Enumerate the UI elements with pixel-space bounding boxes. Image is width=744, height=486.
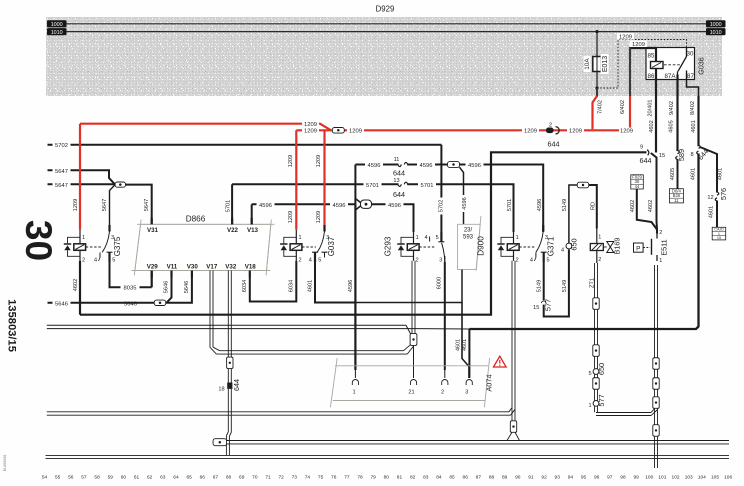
- wire label 4602 at G375: [73, 279, 79, 291]
- G293 pin 3: [439, 256, 445, 263]
- svg-text:1209: 1209: [524, 129, 537, 135]
- svg-text:15: 15: [533, 305, 539, 311]
- svg-text:84: 84: [436, 475, 442, 481]
- svg-text:E511: E511: [660, 239, 669, 255]
- svg-text:A074: A074: [485, 374, 494, 391]
- A074 pin 1: [352, 380, 358, 396]
- wire label ZT1: [590, 278, 596, 288]
- svg-text:59: 59: [108, 475, 114, 481]
- G293 pin 2: [414, 250, 419, 263]
- cable from E511 pin1: [655, 265, 658, 358]
- svg-text:66: 66: [200, 475, 206, 481]
- svg-text:61: 61: [134, 475, 140, 481]
- sensor B169 pin 1: [597, 229, 602, 244]
- G037 diode: [280, 237, 296, 256]
- svg-text:70: 70: [252, 475, 258, 481]
- svg-text:577: 577: [597, 394, 606, 406]
- svg-text:67: 67: [213, 475, 219, 481]
- svg-text:65: 65: [186, 475, 192, 481]
- svg-text:80: 80: [384, 475, 390, 481]
- wire 5701 row: [232, 183, 398, 185]
- G375 coil: [74, 244, 86, 251]
- svg-text:87: 87: [476, 475, 482, 481]
- relay pin 87: [687, 71, 695, 80]
- svg-text:75: 75: [318, 475, 324, 481]
- svg-text:57: 57: [81, 475, 87, 481]
- cable E511 column to bottom: [655, 436, 658, 468]
- svg-text:1209: 1209: [349, 129, 362, 135]
- wire 5702 bus: [48, 144, 442, 146]
- svg-text:4601: 4601: [462, 339, 468, 351]
- svg-text:5149: 5149: [562, 280, 568, 292]
- svg-text:21: 21: [408, 390, 414, 396]
- wire 5701 V22 riser: [231, 184, 233, 224]
- svg-text:1209: 1209: [632, 42, 645, 48]
- svg-text:V22: V22: [227, 227, 239, 234]
- wire label 5647 at V31 riser: [144, 199, 150, 211]
- wire label 1000 right: [706, 20, 726, 28]
- G371 dashed coil link: [519, 246, 534, 248]
- svg-text:1: 1: [298, 235, 301, 241]
- G293 switch pin 5: [436, 232, 445, 242]
- connector break 11/644 on 4596: [393, 157, 408, 177]
- svg-text:2: 2: [416, 257, 419, 263]
- power distribution rail D929 (grey band): [46, 17, 722, 96]
- wire 6034 V18 riser: [250, 261, 296, 302]
- wire 1209 red bus lower: [296, 129, 630, 131]
- wire label 8035: [121, 284, 140, 291]
- wire label 4605 lower: [670, 168, 676, 180]
- cable rail R across page: [47, 408, 515, 415]
- svg-text:1209: 1209: [316, 155, 322, 167]
- svg-text:5646: 5646: [184, 281, 190, 293]
- wire label 5646 at V11: [164, 281, 170, 293]
- wire label RD: [590, 202, 596, 210]
- D866 pin V13: [247, 218, 259, 234]
- wire label 6034 at G037: [289, 280, 295, 292]
- label G371: [547, 236, 556, 256]
- wire label 1209 after 644: [567, 128, 584, 135]
- wire label 6034 at V18: [242, 280, 248, 292]
- connector A074 box: [330, 358, 489, 407]
- wire 4596 row1 right to G371: [460, 165, 544, 233]
- svg-text:1209: 1209: [620, 129, 633, 135]
- svg-text:D929: D929: [376, 5, 395, 14]
- node fuse tap on wire 1010: [595, 30, 598, 33]
- connector pin 1 on 577 left: [588, 389, 598, 409]
- svg-text:1: 1: [82, 235, 85, 241]
- wire 5701 row right: [407, 184, 513, 232]
- wire 8035 from G375 pin5: [110, 262, 152, 287]
- relay contact blade: [678, 57, 687, 72]
- G371 pin 4 contact: [530, 253, 536, 264]
- label E013: [601, 54, 610, 74]
- wire 1209 red riser to G037 pin1: [295, 130, 297, 230]
- G293 diode: [397, 237, 413, 256]
- wire label 4601 branch lower: [709, 206, 715, 218]
- connector on E511 column 2: [653, 378, 659, 390]
- G293 dashed coil link: [419, 246, 436, 248]
- B169 nozzle symbol: [603, 242, 614, 253]
- wire label 4596 after V13: [257, 202, 275, 209]
- cable ZT1 from B169 pin2: [595, 263, 598, 298]
- wire label 5647 lower: [53, 182, 71, 189]
- svg-text:1: 1: [516, 235, 519, 241]
- wire label 4596 row1 mid: [417, 162, 435, 169]
- svg-text:650: 650: [570, 238, 579, 250]
- svg-text:100: 100: [645, 475, 653, 481]
- svg-text:101: 101: [658, 475, 666, 481]
- ruler scale 54-106: [42, 475, 733, 481]
- svg-text:15: 15: [659, 153, 665, 159]
- wire label 6/402: [620, 100, 626, 114]
- svg-text:5646: 5646: [55, 301, 68, 307]
- wire label 4601 mid right: [690, 168, 696, 180]
- svg-text:74: 74: [305, 475, 311, 481]
- svg-text:5: 5: [318, 257, 321, 263]
- svg-text:62: 62: [147, 475, 153, 481]
- connector break 8/644: [690, 145, 710, 162]
- svg-text:63: 63: [160, 475, 166, 481]
- connector on ZT1 cable: [593, 298, 599, 310]
- D866 pin V22: [227, 218, 239, 234]
- G037 pin 4 contact: [309, 252, 318, 263]
- svg-text:5701: 5701: [507, 199, 513, 211]
- wire fuse feed: [596, 32, 598, 57]
- wire label 1209 at relay 85 feed: [630, 41, 647, 48]
- svg-text:4602: 4602: [649, 120, 655, 132]
- svg-text:G293: G293: [384, 236, 393, 256]
- svg-text:69: 69: [239, 475, 245, 481]
- svg-text:4596: 4596: [388, 203, 401, 209]
- wire 5646 branch to V11: [167, 278, 172, 303]
- cable B169 column bottom turn: [595, 406, 658, 415]
- svg-text:5646: 5646: [164, 281, 170, 293]
- svg-text:5647: 5647: [102, 199, 108, 211]
- wire label 9/402: [669, 101, 675, 115]
- svg-text:68: 68: [226, 475, 232, 481]
- control unit D866 box: [132, 220, 275, 276]
- fuse E013 10A: [593, 57, 601, 72]
- G037 switch blade: [317, 232, 324, 253]
- svg-text:1209: 1209: [304, 122, 317, 128]
- D866 pin V17: [206, 263, 218, 270]
- svg-text:5: 5: [546, 257, 549, 263]
- svg-text:76: 76: [331, 475, 337, 481]
- svg-text:577: 577: [544, 299, 553, 311]
- svg-text:1209: 1209: [569, 129, 582, 135]
- wire 4596 row3: [252, 203, 356, 205]
- wire 5646 to V30: [166, 278, 192, 303]
- svg-text:6034: 6034: [242, 280, 248, 292]
- svg-text:650: 650: [597, 363, 606, 375]
- wire label 7/402: [598, 100, 604, 114]
- svg-text:D866: D866: [186, 215, 206, 224]
- G375 switch blade: [102, 232, 109, 253]
- svg-text:1209: 1209: [73, 199, 79, 211]
- svg-text:64: 64: [173, 475, 179, 481]
- connector on E511 column 4: [653, 425, 659, 437]
- connector pin 4 on 650: [561, 243, 572, 253]
- svg-text:B169: B169: [613, 238, 622, 255]
- wire 5149 from G371 pin5: [543, 262, 545, 300]
- E511 contact: [652, 234, 658, 262]
- wire 4601 thin rail left: [47, 328, 418, 330]
- connector on 5646: [154, 300, 166, 305]
- wire 4601 branch to refbox: [716, 201, 718, 228]
- A074 pin 2: [441, 380, 448, 396]
- G037 pin 5 contact: [318, 252, 327, 263]
- svg-text:87: 87: [687, 73, 694, 80]
- svg-text:4596: 4596: [468, 163, 481, 169]
- wire label 1000 left: [47, 20, 67, 28]
- svg-text:4602: 4602: [648, 200, 654, 212]
- wire 6000 to A074 pin2: [444, 370, 446, 378]
- page number 30: [18, 220, 59, 261]
- connector break 13/644 on 5701: [393, 178, 408, 199]
- svg-text:12: 12: [707, 195, 713, 201]
- svg-text:8035: 8035: [124, 286, 137, 292]
- svg-text:10A: 10A: [584, 58, 591, 70]
- wire label 1209 at G375: [73, 199, 79, 211]
- node fuse output junction: [595, 86, 598, 89]
- relay pin 86: [648, 69, 656, 80]
- wire 6000 from G293 pin3: [444, 262, 446, 370]
- svg-text:V11: V11: [167, 263, 178, 270]
- svg-text:105: 105: [711, 475, 719, 481]
- label B169: [613, 238, 622, 255]
- pressure switch E511 pin 2: [659, 230, 662, 236]
- svg-text:V18: V18: [245, 263, 257, 270]
- svg-text:4596: 4596: [333, 203, 346, 209]
- svg-text:99: 99: [633, 475, 639, 481]
- wire label 1209 lower fork: [302, 128, 319, 135]
- G371 pin 5 contact: [541, 252, 550, 263]
- svg-text:71: 71: [265, 475, 271, 481]
- cable ZT1 down: [595, 309, 598, 344]
- wire 4601 relay column down to bus: [469, 154, 698, 330]
- svg-text:V29: V29: [147, 263, 159, 270]
- connector on V32 cable: [227, 357, 233, 369]
- svg-text:5701: 5701: [421, 183, 434, 189]
- wire label 4601 branch upper: [718, 168, 724, 180]
- wire 1209 red to G375 pin1: [79, 124, 81, 230]
- G037 pin 2: [296, 250, 301, 263]
- svg-text:RD: RD: [590, 202, 596, 210]
- svg-text:13: 13: [393, 178, 399, 184]
- wire 4601 bus B right: [418, 328, 697, 330]
- wire label 1209 before relay drop: [619, 128, 634, 135]
- svg-text:5149: 5149: [562, 199, 568, 211]
- svg-text:4: 4: [94, 257, 97, 263]
- wire label 1010 right: [706, 28, 726, 36]
- wire label 1209 upper fork: [302, 121, 319, 128]
- label 576: [719, 188, 728, 200]
- svg-text:5701: 5701: [225, 200, 231, 212]
- svg-text:79: 79: [371, 475, 377, 481]
- connector on B169 column 3: [593, 374, 599, 389]
- wire label 6000: [436, 277, 442, 289]
- label 650 left column: [597, 363, 606, 375]
- svg-text:5149: 5149: [536, 280, 542, 292]
- svg-text:6034: 6034: [289, 280, 295, 292]
- wire 1209 into relay 85: [630, 47, 656, 49]
- label D900: [477, 236, 486, 256]
- svg-text:1: 1: [352, 390, 355, 396]
- wire label 4601 left: [456, 339, 462, 351]
- svg-text:G371: G371: [547, 236, 556, 256]
- svg-text:P: P: [636, 245, 640, 252]
- relay G036 body: [646, 48, 695, 80]
- wire label 5646 left: [53, 300, 71, 307]
- wire 4602 from refbox: [637, 189, 657, 230]
- svg-text:106: 106: [724, 475, 732, 481]
- svg-text:93: 93: [555, 475, 561, 481]
- wire 5149 bridge up: [569, 185, 577, 243]
- svg-text:2: 2: [298, 257, 301, 263]
- svg-text:15: 15: [717, 236, 721, 240]
- svg-text:9/402: 9/402: [669, 101, 675, 115]
- svg-text:2: 2: [82, 257, 85, 263]
- wire 5647 to V31: [126, 185, 152, 225]
- svg-text:644: 644: [640, 156, 652, 165]
- svg-text:5702: 5702: [438, 200, 444, 212]
- svg-text:V30: V30: [187, 263, 199, 270]
- D866 pin V30: [187, 263, 199, 277]
- wire 4596 branch to D900: [460, 167, 464, 224]
- svg-text:4: 4: [309, 257, 312, 263]
- wire 8/402 from relay 87: [697, 96, 699, 146]
- label 644 at 18: [232, 379, 241, 391]
- svg-text:60: 60: [121, 475, 127, 481]
- svg-text:77: 77: [344, 475, 350, 481]
- wire label 5701 before break: [364, 182, 382, 189]
- wire label 5647 upper: [53, 168, 71, 175]
- wire 86 to band edge: [655, 80, 657, 97]
- svg-text:86: 86: [463, 475, 469, 481]
- svg-text:4: 4: [561, 248, 564, 254]
- relay pin 30: [687, 48, 694, 58]
- svg-text:576: 576: [719, 188, 728, 200]
- svg-text:83: 83: [423, 475, 429, 481]
- wire label 1209 mid: [522, 128, 539, 135]
- wire 5646 to connector: [116, 302, 154, 304]
- G037 coil: [290, 244, 302, 251]
- svg-text:90: 90: [515, 475, 521, 481]
- wire 4601 branch to 576: [700, 147, 717, 193]
- G037 switch pin 3: [325, 225, 330, 241]
- svg-text:103: 103: [685, 475, 693, 481]
- svg-text:G037: G037: [327, 236, 336, 256]
- wire label 5702: [53, 142, 71, 149]
- G375 pin 4 contact: [94, 253, 100, 264]
- svg-text:2: 2: [549, 122, 552, 128]
- svg-text:87A: 87A: [664, 73, 676, 80]
- svg-text:4596: 4596: [348, 280, 354, 292]
- cable E511 column down: [655, 408, 658, 424]
- G375 diode: [64, 237, 80, 256]
- solenoid valve G371 pin 1: [514, 232, 519, 244]
- wire 5647 upper: [48, 170, 115, 184]
- connector break 12/576: [707, 192, 718, 201]
- svg-text:5647: 5647: [55, 183, 68, 189]
- svg-text:4601: 4601: [308, 280, 314, 292]
- svg-text:4596: 4596: [259, 203, 272, 209]
- wire 4601 from D900 box down: [461, 270, 463, 304]
- G375 pin 5 contact: [107, 252, 116, 263]
- wire 5646 row: [48, 302, 117, 304]
- G371 switch pin 3: [543, 225, 548, 241]
- diagram number 135803/15: [6, 299, 18, 352]
- relay pin 87A: [664, 71, 677, 80]
- wire 1010 (+15 feed): [66, 31, 706, 33]
- svg-text:1209: 1209: [288, 155, 294, 167]
- svg-text:1209: 1209: [316, 211, 322, 223]
- B169 body: [590, 244, 603, 251]
- label G293: [384, 236, 393, 256]
- E511 P box: [634, 243, 651, 252]
- cable G371 merge to cable P: [507, 432, 520, 440]
- svg-text:1209: 1209: [304, 129, 317, 135]
- svg-text:589: 589: [677, 149, 686, 161]
- svg-text:2: 2: [659, 230, 662, 236]
- wire label 1010 left: [47, 28, 67, 36]
- D866 pin V32: [225, 263, 237, 270]
- G293 coil: [407, 244, 419, 251]
- G293 pin 4: [424, 235, 429, 242]
- svg-text:98: 98: [620, 475, 626, 481]
- connector on B169 column 2: [593, 345, 599, 357]
- svg-text:644: 644: [548, 140, 560, 149]
- wire 1209 red riser to G037 pin3: [323, 130, 325, 225]
- svg-text:644: 644: [232, 379, 241, 391]
- svg-text:V17: V17: [206, 263, 218, 270]
- wire label 5149 at 650 column lower: [562, 280, 568, 292]
- svg-text:1: 1: [659, 258, 662, 264]
- svg-text:18: 18: [218, 387, 224, 393]
- A074 pin 3: [465, 380, 472, 396]
- wire label 20/401: [648, 99, 654, 116]
- B169 pin 2: [597, 251, 602, 264]
- cable V32 to bottom cable: [226, 436, 229, 455]
- wire 1209 red bus upper: [80, 124, 331, 131]
- label 650 at bridge: [570, 238, 579, 250]
- svg-text:2: 2: [516, 257, 519, 263]
- svg-text:81: 81: [397, 475, 403, 481]
- wire label 4596 at D900: [461, 195, 468, 212]
- connector pin 15 on 577: [533, 301, 546, 311]
- svg-text:1: 1: [598, 235, 601, 241]
- wire label 4596 at G371 pin3: [537, 199, 543, 211]
- cable Q bottom: [46, 455, 730, 458]
- label G036: [697, 57, 706, 75]
- svg-text:4601: 4601: [709, 206, 715, 218]
- wire 4602 from G375 pin2: [79, 261, 81, 315]
- svg-text:D900: D900: [477, 236, 486, 256]
- cable V32 from D866: [228, 271, 231, 358]
- svg-text:5702: 5702: [55, 143, 68, 149]
- node 4596 fork with connector: [355, 199, 371, 211]
- svg-text:3: 3: [465, 390, 468, 396]
- cable G293 down to connector: [412, 261, 415, 334]
- cable rail upper line: [47, 325, 411, 334]
- svg-text:85: 85: [449, 475, 455, 481]
- wire 4602 relay column down: [651, 153, 657, 221]
- wire label 4596 before fork: [330, 202, 348, 209]
- svg-text:1000: 1000: [51, 22, 63, 28]
- svg-text:V13: V13: [247, 227, 259, 234]
- wire 4601 from G037 pin4: [315, 262, 355, 303]
